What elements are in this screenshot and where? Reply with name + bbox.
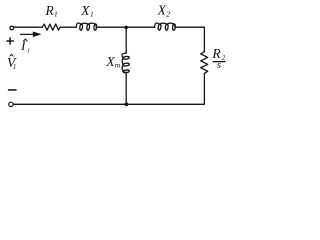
terminal bottom-left [9, 102, 13, 106]
svg-text:1: 1 [90, 10, 94, 19]
wire node A vertical upper [125, 27, 127, 53]
current arrow I1 [20, 32, 42, 38]
terminal top-left [10, 26, 14, 30]
wire X2 to top-right corner [175, 26, 204, 28]
svg-text:I: I [20, 38, 26, 53]
svg-text:2: 2 [166, 10, 170, 19]
inductor X2 [155, 23, 176, 27]
svg-text:1: 1 [27, 48, 30, 55]
inductor X1 [76, 23, 96, 27]
hat accent over I1 [23, 39, 27, 41]
node A junction dot [124, 26, 128, 30]
hat accent over V1 [10, 54, 14, 56]
wire right branch upper segment [203, 27, 205, 51]
svg-text:s: s [217, 59, 221, 71]
inductor Xm [122, 53, 126, 72]
fraction bar R2/s [213, 61, 226, 62]
wire node A to X2 [126, 26, 154, 28]
bottom junction dot [125, 102, 129, 106]
wire right branch lower segment [13, 73, 204, 104]
svg-text:m: m [115, 60, 121, 69]
wire top-left lead [14, 26, 42, 28]
svg-text:1: 1 [54, 10, 58, 19]
resistor R1 [42, 24, 60, 30]
wire X1 to node A [96, 26, 126, 28]
svg-text:X: X [157, 2, 167, 17]
wire Xm to bottom node [125, 72, 127, 104]
plus sign [6, 37, 13, 44]
svg-text:X: X [80, 3, 90, 18]
svg-text:1: 1 [13, 63, 17, 71]
svg-text:R: R [45, 3, 55, 18]
resistor R2/s [201, 52, 208, 74]
minus sign [8, 89, 17, 91]
wire R1 to X1 [60, 26, 76, 28]
